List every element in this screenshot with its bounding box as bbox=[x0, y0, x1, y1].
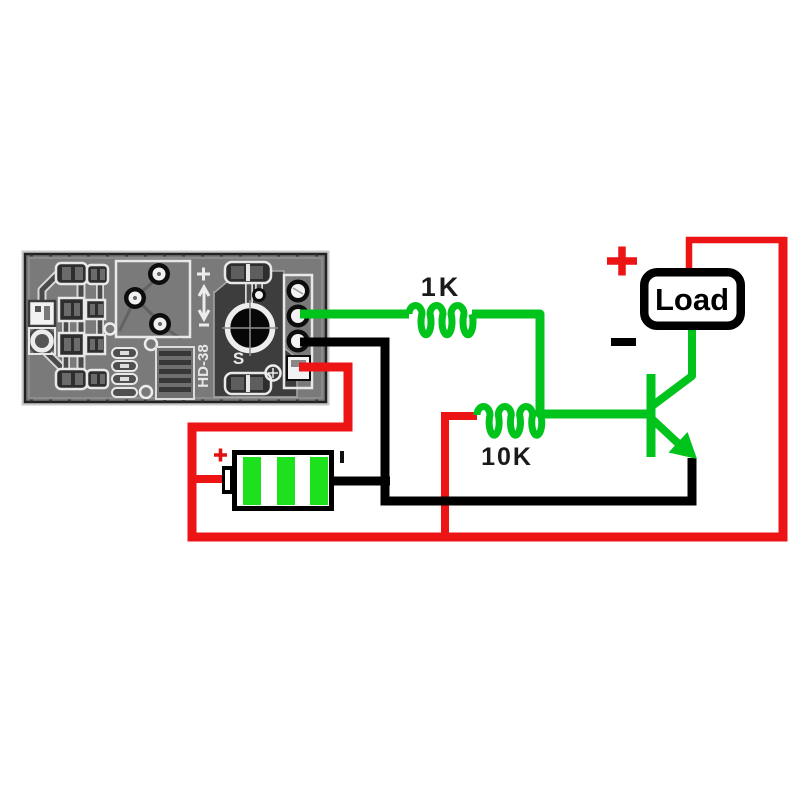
svg-text:1K: 1K bbox=[421, 272, 462, 302]
svg-text:Load: Load bbox=[655, 282, 729, 317]
svg-text:S: S bbox=[233, 349, 244, 368]
svg-text:HD-38: HD-38 bbox=[195, 344, 212, 387]
svg-text:10K: 10K bbox=[481, 443, 533, 471]
